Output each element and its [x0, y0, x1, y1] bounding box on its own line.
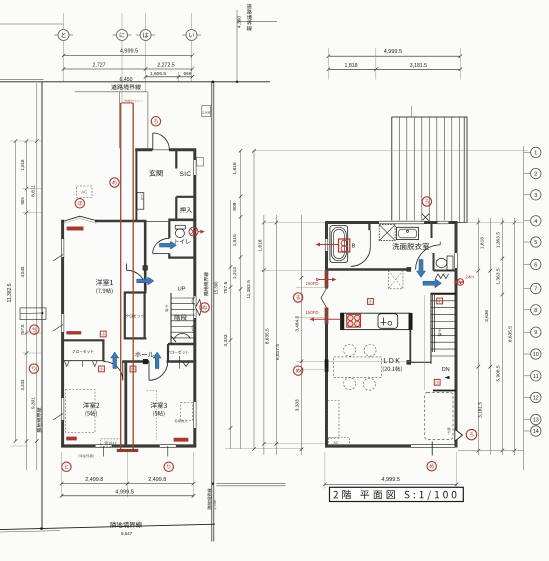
svg-text:2: 2 [534, 172, 537, 178]
road opposite edge line [237, 20, 277, 22]
grid circle は [136, 34, 140, 36]
closet walls [124, 293, 126, 339]
red 2F outline lines [120, 103, 122, 450]
kitchen-stairs wall [409, 330, 411, 363]
room1 east wall [144, 221, 147, 293]
grid circle い [182, 34, 186, 36]
svg-text:2,499.8: 2,499.8 [85, 477, 103, 483]
grid circle 10 [524, 353, 531, 355]
1F right chains (between plans) [230, 200, 232, 449]
svg-text:1,606.5: 1,606.5 [150, 71, 166, 77]
1F outer wall top (entrance/SIC) [135, 148, 152, 151]
washroom label [392, 243, 429, 250]
svg-text:12: 12 [533, 396, 539, 402]
marker box 小 [368, 299, 374, 305]
bath remote (red) [339, 239, 350, 252]
svg-text:4: 4 [534, 219, 537, 225]
svg-text:150FD: 150FD [306, 281, 319, 286]
entrance door arc [153, 133, 170, 150]
entrance west wall [135, 150, 137, 221]
marker circle ろ [151, 117, 160, 126]
blue arrow right [423, 279, 442, 288]
svg-text:5,908.5: 5,908.5 [496, 365, 502, 381]
marker circle ぬ [200, 303, 209, 312]
wall FD blocks and casement [324, 289, 329, 308]
chain stubs [10, 140, 42, 142]
right chain stubs [458, 222, 524, 224]
AC unit room1 [77, 186, 93, 198]
outdoor faucet 立水栓 [202, 106, 211, 117]
svg-text:1,759: 1,759 [213, 500, 217, 510]
svg-text:1,212: 1,212 [232, 267, 238, 280]
SIC shelf [197, 158, 204, 167]
hall north wall / oshiire bottom [168, 219, 196, 222]
grid row line 1 [254, 150, 528, 152]
grid circle 4 [524, 220, 531, 222]
bath door arc [351, 247, 370, 266]
grid circle 11 [524, 375, 531, 377]
toilet west wall [168, 221, 170, 238]
svg-text:11: 11 [533, 374, 539, 380]
stove (red) [347, 314, 361, 327]
stairs 1F [170, 293, 172, 344]
svg-text:AC: AC [333, 441, 339, 445]
svg-text:9,301: 9,301 [30, 397, 36, 409]
2F right chains [477, 218, 479, 455]
hall door arcs to rooms 2/3 [104, 362, 123, 381]
svg-text:4,999.5: 4,999.5 [120, 48, 138, 54]
svg-text:6,817.5: 6,817.5 [275, 344, 281, 360]
svg-text:SIC: SIC [180, 171, 192, 178]
svg-text:1: 1 [534, 150, 537, 156]
room1 label [96, 279, 113, 286]
room3 label [151, 402, 167, 408]
marker box 小 [100, 331, 106, 337]
svg-text:767.5: 767.5 [20, 324, 25, 336]
bath vent red arrow [320, 244, 338, 246]
dining table dashed [334, 357, 382, 378]
24H fan [457, 279, 464, 286]
grid circle に [113, 34, 117, 36]
under-stairs closet west wall [167, 344, 169, 362]
grid circle 3 [524, 194, 531, 196]
svg-text:1,818: 1,818 [232, 162, 238, 175]
svg-text:2,272.5: 2,272.5 [157, 63, 174, 69]
SIC divider wall [175, 151, 177, 169]
svg-text:909: 909 [232, 202, 238, 210]
future partition dashed [147, 390, 157, 392]
dim chain left inner [36, 83, 38, 470]
SIC / oshiire wall [176, 196, 195, 198]
svg-text:8,635.5: 8,635.5 [508, 326, 514, 342]
stairs diamond marker [196, 300, 202, 316]
svg-text:AC: AC [81, 190, 87, 195]
vanity [397, 227, 419, 239]
grid circle 6 [524, 263, 531, 265]
svg-text:1,818: 1,818 [345, 63, 358, 69]
closet label [126, 314, 144, 318]
2F outer wall bottom [325, 444, 411, 447]
svg-text:1,363.5: 1,363.5 [496, 268, 502, 285]
WIC label [72, 350, 93, 353]
red window bars bottom rooms [67, 437, 77, 440]
marker circle る [293, 293, 302, 302]
marker circle ろ [466, 429, 476, 439]
marker circle め [427, 462, 436, 471]
grid circle 5 [524, 241, 531, 243]
1F windows [60, 239, 64, 257]
marker circle り [29, 364, 38, 373]
toilet niche wall [431, 223, 433, 239]
marker box 小 [434, 379, 440, 385]
marker circle り [164, 462, 173, 471]
road width guide [236, 10, 238, 82]
grid circle 13 [524, 419, 531, 421]
marker circle ろ [422, 197, 431, 206]
2F left chain [253, 151, 255, 449]
svg-text:8,811: 8,811 [30, 185, 36, 197]
center wall rooms 2/3 [124, 362, 127, 447]
hall label [135, 352, 154, 357]
grid extension lines [63, 41, 65, 82]
svg-text:11,382.5: 11,382.5 [7, 283, 13, 302]
blue up arrows hall [111, 352, 119, 369]
stairs 2F [431, 293, 456, 295]
approach edge lines [75, 91, 148, 93]
callout box [20, 308, 46, 320]
sofa dashed [328, 401, 340, 439]
svg-text:3,636: 3,636 [484, 310, 490, 322]
kitchen counter [341, 313, 411, 329]
room1 top wall [95, 220, 146, 223]
kitchen vent red arrow [314, 318, 341, 320]
toilet folding door [436, 274, 449, 279]
svg-text:13: 13 [533, 418, 539, 424]
site boundary right [211, 82, 213, 524]
1F outer wall bottom [61, 444, 196, 447]
svg-text:10: 10 [533, 352, 539, 358]
room2 future closet dashed [66, 390, 96, 433]
entrance canopy gable [62, 216, 97, 221]
grid circle 12 [524, 397, 531, 399]
marker box 小 [437, 298, 443, 304]
svg-text:6,547: 6,547 [121, 531, 133, 536]
marker circle ほ [75, 199, 84, 208]
toilet fixture [175, 225, 185, 229]
bath/washroom south wall [327, 268, 410, 271]
svg-text:3,181.5: 3,181.5 [478, 402, 484, 418]
washroom door arc [416, 245, 441, 270]
grid circle と [54, 34, 58, 36]
road boundary line (top) [0, 81, 270, 83]
site boundary bottom [0, 524, 215, 529]
neighbor fence double line [216, 483, 285, 485]
room3 future closet dashed [181, 403, 193, 421]
genkan label [149, 170, 162, 177]
outdoor AC room bottom [101, 439, 121, 447]
svg-text:8: 8 [534, 308, 537, 314]
marker box 小 [130, 366, 136, 372]
under-stairs closet label [167, 350, 189, 354]
hall south wall segments [122, 360, 149, 363]
WIC closet room (west) [63, 339, 105, 341]
svg-text:3,484.5: 3,484.5 [295, 315, 301, 331]
shoe cabinet [137, 193, 144, 210]
stairs bottom wall [168, 343, 196, 346]
marker box 小 [99, 366, 105, 372]
red alarm bar [67, 227, 83, 230]
svg-text:9: 9 [534, 330, 537, 336]
center mark bottom wall [431, 442, 433, 456]
svg-text:1,818: 1,818 [258, 239, 264, 251]
svg-text:2,499.8: 2,499.8 [148, 477, 166, 483]
svg-text:8,635.5: 8,635.5 [264, 328, 270, 344]
1F outer wall right [193, 150, 196, 448]
toilet door arc [153, 238, 170, 253]
window slash marks [53, 325, 63, 332]
svg-text:DN: DN [442, 367, 450, 373]
grid circle 14 [524, 430, 531, 432]
toilet south wall [168, 257, 195, 259]
svg-text:11,382.5: 11,382.5 [246, 280, 252, 299]
dim chain left middle [26, 141, 28, 470]
dashed X box washroom [388, 271, 403, 289]
room1 door arc [127, 270, 147, 290]
bathtub [330, 226, 348, 263]
marker circle ち [30, 325, 39, 334]
svg-text:150FD: 150FD [306, 310, 319, 315]
grid circle 8 [524, 309, 531, 311]
svg-text:3,333: 3,333 [20, 379, 25, 391]
red alarm bar west [67, 331, 81, 334]
2F outer wall top [325, 221, 458, 224]
svg-text:1,515: 1,515 [232, 234, 238, 247]
svg-text:1,818: 1,818 [20, 159, 25, 171]
balcony triangle [455, 429, 463, 441]
svg-text:4,545: 4,545 [20, 266, 25, 278]
marker circle と [62, 462, 71, 471]
2F windows [379, 220, 424, 224]
svg-text:4,999.5: 4,999.5 [115, 490, 134, 496]
svg-text:24H: 24H [465, 275, 473, 280]
toilet label [176, 239, 191, 244]
svg-text:4,999.5: 4,999.5 [381, 477, 400, 483]
svg-text:3,333: 3,333 [223, 334, 229, 347]
marker circle め [110, 178, 119, 187]
svg-text:B: B [352, 244, 356, 250]
svg-text:2,727: 2,727 [93, 63, 106, 69]
blue arrow room1 [137, 277, 154, 285]
2F outer wall left [325, 223, 328, 448]
svg-text:757.5: 757.5 [223, 281, 229, 294]
svg-text:6: 6 [534, 262, 537, 268]
roof hatch [392, 117, 467, 223]
2F left chain stubs [264, 222, 325, 224]
svg-text:3: 3 [534, 193, 537, 199]
svg-text:666: 666 [183, 71, 191, 77]
washer box [379, 225, 395, 241]
svg-text:909: 909 [20, 197, 25, 205]
1F outer wall left [61, 220, 64, 448]
grid circle 2 [524, 173, 531, 175]
blue arrow toilet [160, 241, 177, 249]
room2 label [83, 402, 99, 408]
site boundary left [41, 82, 43, 529]
grid circle 7 [524, 288, 531, 290]
svg-text:3,181.5: 3,181.5 [410, 63, 427, 69]
2F outer wall right [455, 223, 458, 448]
blue arrow down [417, 260, 426, 278]
title box [330, 487, 464, 501]
marker circle め [293, 366, 302, 375]
svg-text:14: 14 [533, 429, 539, 435]
svg-text:7: 7 [534, 287, 537, 293]
oshiire label [180, 207, 192, 213]
svg-text:4,360: 4,360 [237, 16, 243, 29]
dims bottom 2F [324, 452, 326, 489]
toilet 2F [447, 256, 453, 270]
svg-text:4,999.5: 4,999.5 [384, 49, 402, 55]
balcony dashed [425, 392, 453, 439]
grid circle 9 [524, 331, 531, 333]
toilet fan vent [189, 227, 198, 236]
svg-text:3,333: 3,333 [295, 399, 301, 411]
sink [378, 314, 398, 329]
dim chain far left 11,382.5 [15, 141, 17, 441]
svg-text:1,818: 1,818 [479, 237, 485, 249]
svg-text:UP: UP [177, 286, 185, 292]
roof X mark [422, 214, 429, 221]
dims bottom 1F [61, 452, 63, 498]
svg-text:1,363.5: 1,363.5 [496, 232, 502, 249]
svg-text:15,390: 15,390 [214, 281, 219, 294]
AC 2F [329, 438, 350, 446]
svg-text:5: 5 [534, 240, 537, 246]
bath east wall [368, 223, 370, 231]
grid circle 1 [524, 151, 531, 153]
